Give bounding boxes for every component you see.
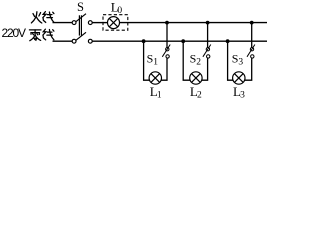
node neutral-L1 junction dot (142, 39, 146, 43)
node neutral-L3 junction dot (226, 39, 230, 43)
switch S (double-pole) (72, 14, 92, 43)
wire neutral line left segment (53, 40, 73, 42)
wire neutral line right segment (92, 40, 267, 42)
lamp L1 (149, 72, 161, 84)
svg-text:1: 1 (153, 57, 158, 67)
wire branch 3 from switch S3 down to lamp L3 (245, 58, 252, 80)
svg-text:1: 1 (157, 91, 162, 99)
wire branch 2 left drop from neutral to lamp L2 (183, 41, 190, 80)
node live-S1 junction dot (165, 21, 169, 25)
wire branch 1 right drop from live line to switch S1 (166, 23, 168, 48)
lamp L0 (108, 17, 120, 29)
wire branch 1 from switch S1 down to lamp L1 (161, 58, 167, 80)
wire branch 3 right drop from live line to switch S3 (251, 23, 253, 48)
lamp L2 (190, 72, 202, 84)
svg-text:2: 2 (196, 57, 201, 67)
svg-text:3: 3 (238, 57, 243, 67)
wire live line left segment (53, 22, 73, 24)
node live-S3 junction dot (250, 21, 254, 25)
label lingxian (neutral wire) drawn glyphs (29, 29, 54, 41)
switch S1 (162, 45, 170, 59)
wire live line middle segment (92, 22, 107, 24)
wire branch 2 from switch S2 down to lamp L2 (202, 58, 208, 80)
node neutral-L2 junction dot (181, 39, 185, 43)
svg-text:2: 2 (197, 91, 202, 99)
wire live line right segment (120, 22, 268, 24)
wire branch 2 right drop from live line to switch S2 (207, 23, 209, 48)
label huoxian (live wire) drawn glyphs (31, 12, 54, 23)
wire branch 1 left drop from neutral to lamp L1 (144, 41, 150, 80)
switch S2 (203, 45, 211, 59)
svg-text:0: 0 (117, 6, 122, 16)
wire branch 3 left drop from neutral to lamp L3 (228, 41, 234, 80)
node live-S2 junction dot (206, 21, 210, 25)
dashed box around L0 (103, 15, 128, 31)
svg-text:220V: 220V (2, 26, 27, 40)
lamp L3 (233, 72, 245, 84)
switch S3 (247, 45, 255, 59)
svg-text:S: S (77, 0, 84, 14)
svg-text:3: 3 (240, 91, 245, 99)
